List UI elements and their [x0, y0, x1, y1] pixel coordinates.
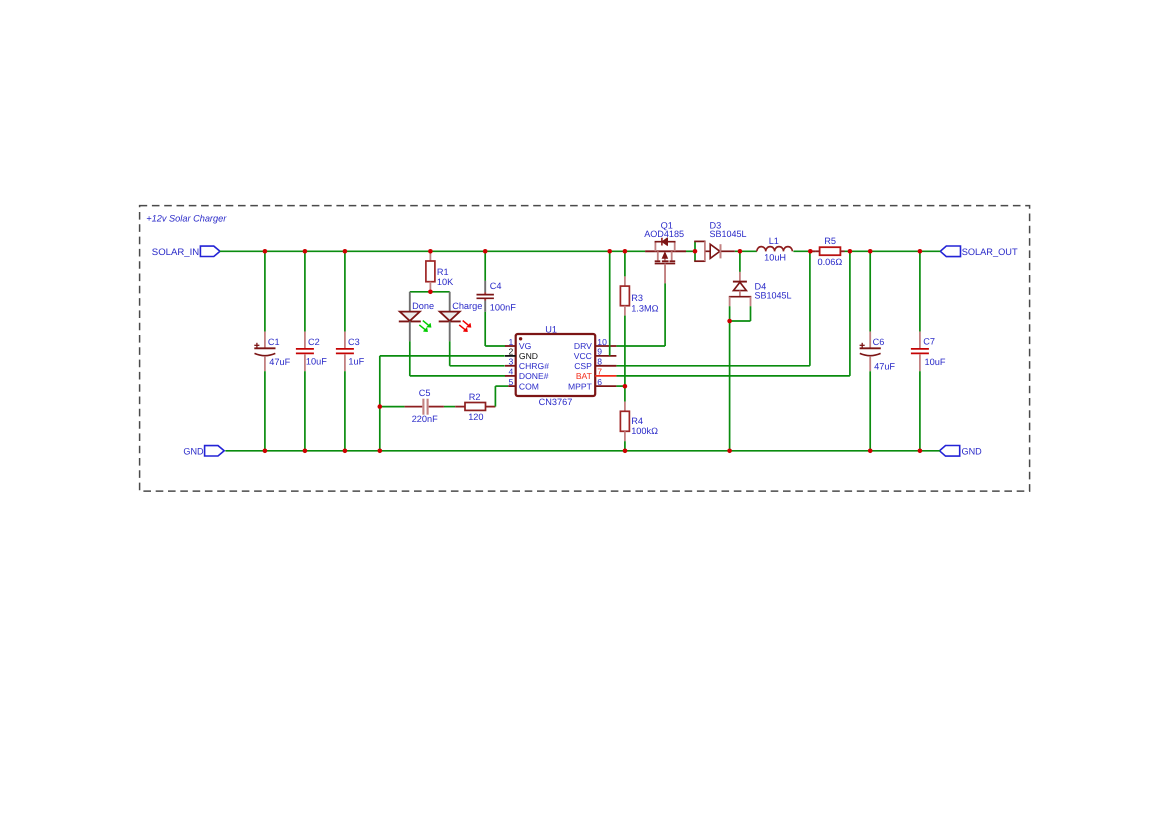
svg-text:SOLAR_IN: SOLAR_IN [152, 246, 199, 257]
svg-text:R2: R2 [469, 392, 481, 402]
svg-text:R3: R3 [631, 293, 643, 303]
svg-text:CN3767: CN3767 [539, 397, 573, 407]
svg-text:AOD4185: AOD4185 [644, 229, 684, 239]
svg-text:R1: R1 [437, 267, 449, 277]
svg-text:VG: VG [519, 341, 532, 351]
svg-text:CSP: CSP [574, 361, 592, 371]
svg-text:C2: C2 [308, 337, 320, 347]
svg-text:120: 120 [468, 412, 483, 422]
svg-text:Done: Done [412, 301, 434, 311]
svg-text:MPPT: MPPT [568, 381, 593, 391]
svg-text:8: 8 [597, 357, 602, 367]
svg-text:+12v Solar Charger: +12v Solar Charger [146, 213, 227, 224]
svg-text:1.3MΩ: 1.3MΩ [631, 303, 658, 313]
svg-text:U1: U1 [545, 325, 557, 335]
svg-text:7: 7 [597, 367, 602, 377]
svg-text:2: 2 [509, 347, 514, 357]
svg-text:0.06Ω: 0.06Ω [818, 257, 843, 267]
svg-text:R5: R5 [824, 236, 836, 246]
svg-text:VCC: VCC [574, 351, 592, 361]
svg-text:47uF: 47uF [874, 362, 895, 372]
svg-text:DONE#: DONE# [519, 371, 549, 381]
svg-text:10uF: 10uF [925, 357, 946, 367]
svg-text:C1: C1 [268, 337, 280, 347]
svg-text:100nF: 100nF [490, 302, 516, 312]
svg-text:100kΩ: 100kΩ [631, 426, 658, 436]
svg-text:GND: GND [962, 446, 982, 457]
svg-text:5: 5 [509, 377, 514, 387]
svg-text:BAT: BAT [576, 371, 593, 381]
svg-text:SB1045L: SB1045L [710, 229, 747, 239]
svg-text:DRV: DRV [574, 341, 592, 351]
svg-text:C7: C7 [923, 336, 935, 346]
svg-text:C3: C3 [348, 337, 360, 347]
svg-text:6: 6 [597, 377, 602, 387]
svg-text:SB1045L: SB1045L [755, 291, 792, 301]
svg-text:9: 9 [597, 347, 602, 357]
svg-text:10uF: 10uF [306, 357, 327, 367]
svg-text:SOLAR_OUT: SOLAR_OUT [962, 246, 1018, 257]
svg-text:3: 3 [509, 357, 514, 367]
svg-text:220nF: 220nF [412, 414, 438, 424]
svg-text:COM: COM [519, 381, 539, 391]
svg-text:C5: C5 [419, 388, 431, 398]
svg-text:47uF: 47uF [269, 357, 290, 367]
svg-text:GND: GND [183, 446, 203, 457]
svg-text:10: 10 [597, 337, 607, 347]
svg-text:GND: GND [519, 351, 538, 361]
svg-text:1uF: 1uF [348, 357, 364, 367]
svg-text:R4: R4 [631, 416, 643, 426]
svg-text:10K: 10K [437, 277, 454, 287]
svg-text:C6: C6 [873, 337, 885, 347]
svg-text:L1: L1 [769, 236, 779, 246]
svg-text:CHRG#: CHRG# [519, 361, 549, 371]
svg-text:10uH: 10uH [764, 252, 786, 262]
svg-text:Charge: Charge [452, 301, 482, 311]
svg-text:1: 1 [509, 337, 514, 347]
svg-text:4: 4 [509, 367, 514, 377]
svg-text:C4: C4 [490, 281, 502, 291]
